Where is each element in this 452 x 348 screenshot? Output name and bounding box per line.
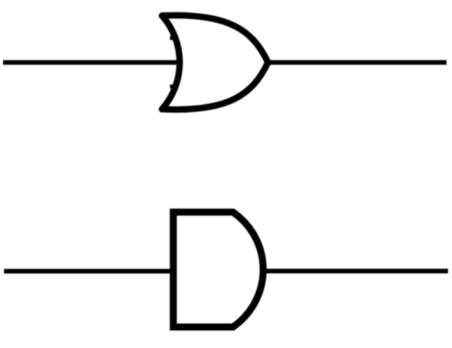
wire: OR gate input bbox=[3, 60, 178, 65]
AND gate U2 body bbox=[173, 212, 263, 327]
wire: AND gate input bbox=[4, 269, 173, 274]
wire: OR gate output bbox=[268, 60, 447, 65]
input stub A on OR gate back edge bbox=[170, 36, 178, 40]
OR gate U1 back (concave) edge bbox=[162, 16, 180, 110]
OR gate U1 body fill bbox=[162, 15, 268, 109]
OR gate U1 nose (top and bottom curves meeting at tip) bbox=[162, 15, 268, 109]
input stub B on OR gate back edge bbox=[170, 85, 178, 89]
wire: AND gate output bbox=[262, 269, 448, 274]
